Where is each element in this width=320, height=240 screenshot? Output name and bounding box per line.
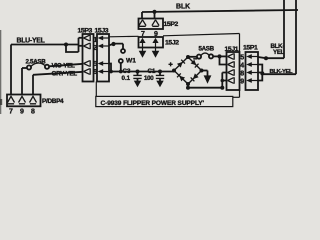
svg-text:0.1: 0.1 bbox=[122, 75, 131, 82]
pin symbol 3 bbox=[30, 96, 37, 104]
node on pin5 wire bbox=[264, 56, 268, 60]
capacitor C1 ground arrow bbox=[159, 78, 161, 81]
connector 15P3 box bbox=[83, 34, 94, 82]
svg-text:15P3: 15P3 bbox=[78, 28, 93, 35]
fuse F2 5A SB wire from bridge top bbox=[188, 56, 197, 58]
diode top-left edge bbox=[177, 60, 185, 68]
15J3 pin 2 plug bbox=[103, 45, 109, 47]
svg-text:7: 7 bbox=[141, 31, 145, 38]
scan edge artifact left bbox=[0, 30, 2, 114]
15P2 pin 7 socket bbox=[139, 20, 146, 27]
svg-text:2.5ASB: 2.5ASB bbox=[26, 58, 47, 65]
enclosure right edge lower bbox=[239, 90, 241, 97]
wire BLK-YEL lower to right edge bbox=[262, 73, 296, 75]
wire BLK junction drop bbox=[154, 12, 156, 19]
wire stub to pin 1 bbox=[79, 37, 84, 39]
15P3 pin 1 socket bbox=[84, 35, 91, 41]
node on pin2 wire bbox=[111, 42, 115, 46]
svg-text:4: 4 bbox=[240, 62, 244, 69]
15J2 pin 7 plug bbox=[139, 38, 145, 43]
node bridge bottom corner bbox=[186, 82, 190, 86]
wire feed to pin 4 bbox=[220, 56, 228, 64]
node bridge right corner bbox=[200, 69, 204, 73]
svg-text:15J1: 15J1 bbox=[225, 46, 239, 53]
wire bridge right corner bbox=[202, 70, 208, 72]
15P3 pin 2 socket bbox=[84, 43, 91, 49]
capacitor C3 plates bbox=[133, 75, 141, 78]
svg-text:15P2: 15P2 bbox=[164, 21, 179, 28]
node bridge left corner bbox=[172, 69, 176, 73]
connector 15J1 box bbox=[227, 52, 240, 90]
node pin 9 branch bbox=[221, 79, 225, 83]
wire stub to pin 2 bbox=[79, 45, 84, 47]
wire BLK top rail bbox=[142, 10, 298, 12]
15J1 pin 9 socket bbox=[228, 77, 235, 83]
bridge rectifier diamond bbox=[174, 57, 202, 84]
15P1 pin 9 plug bbox=[252, 80, 259, 82]
svg-text:YEL: YEL bbox=[273, 49, 285, 56]
enclosure left edge lower bbox=[95, 82, 97, 97]
capacitor C1 plates bbox=[156, 75, 164, 78]
wire GRY-YEL to pin 6 bbox=[33, 72, 83, 75]
enclosure right edge upper bbox=[239, 34, 241, 53]
svg-text:7: 7 bbox=[9, 109, 13, 115]
15P3 pin 6 socket bbox=[84, 68, 91, 74]
node bridge top corner bbox=[186, 55, 190, 59]
15J1 pin 8 socket bbox=[228, 69, 235, 75]
wire GRY-YEL drop to P/DBP4 bbox=[32, 75, 34, 95]
svg-text:BLK-YEL: BLK-YEL bbox=[270, 69, 294, 75]
node BLK junction bbox=[152, 10, 156, 14]
enclosure top edge right segment bbox=[163, 34, 240, 36]
15P1 pin 4 plug bbox=[252, 64, 259, 66]
wire BLK left drop bbox=[141, 12, 143, 19]
svg-text:C3: C3 bbox=[123, 68, 131, 75]
svg-text:5: 5 bbox=[240, 54, 244, 61]
15J3 pin 5 plug bbox=[103, 63, 109, 65]
node C3 on bus bbox=[136, 70, 140, 74]
15J2 pin 7 exit arrow bbox=[139, 51, 147, 58]
15P2 pin 9 socket bbox=[152, 20, 159, 27]
capacitor C1 lead bbox=[159, 72, 161, 76]
svg-text:W1: W1 bbox=[126, 57, 136, 64]
svg-text:8: 8 bbox=[240, 70, 244, 77]
jumper W1 terminal lower bbox=[119, 59, 123, 63]
svg-text:6: 6 bbox=[93, 69, 97, 76]
svg-text:9: 9 bbox=[154, 31, 158, 38]
label box C-9939 bbox=[96, 96, 233, 106]
connector P/DBP4 box bbox=[7, 95, 41, 107]
diode top-right edge bbox=[191, 60, 199, 68]
svg-text:8: 8 bbox=[31, 109, 35, 115]
node W1 joins bus bbox=[119, 70, 123, 74]
svg-text:100: 100 bbox=[144, 75, 154, 82]
svg-text:1: 1 bbox=[93, 37, 97, 44]
wire VIO-YEL to pin 5 bbox=[49, 64, 83, 67]
svg-text:GRY-YEL: GRY-YEL bbox=[52, 70, 78, 77]
svg-text:5: 5 bbox=[93, 61, 97, 68]
enclosure top edge left segment bbox=[109, 35, 139, 38]
wire bus from pin 6 to bridge bbox=[109, 71, 174, 73]
15P1 pin 5 plug bbox=[252, 56, 259, 58]
node pins 4-8-9 join bbox=[260, 71, 264, 75]
connector 15J3 box bbox=[97, 34, 109, 82]
wire bridge bottom rail bbox=[188, 84, 222, 88]
15P1 pin 8 plug bbox=[252, 72, 259, 74]
capacitor C3 ground arrow bbox=[137, 78, 139, 81]
node rail left bbox=[186, 86, 190, 90]
wire rail up to pins 8,9 bbox=[222, 73, 227, 88]
jumper W1 terminal upper bbox=[121, 49, 125, 53]
15J2 pin 9 plug bbox=[152, 38, 158, 43]
wire branch loop below junction bbox=[66, 45, 79, 53]
15J2 pin 9 exit arrow bbox=[152, 51, 160, 58]
svg-text:15J3: 15J3 bbox=[95, 28, 109, 35]
wire vertical right A bbox=[283, 0, 285, 58]
wire pin 8 bbox=[258, 72, 262, 74]
svg-text:P/DBP4: P/DBP4 bbox=[42, 98, 64, 105]
node junction on BLU-YEL bbox=[64, 43, 68, 47]
connector 15P1 box bbox=[246, 52, 259, 90]
svg-text:2: 2 bbox=[93, 45, 97, 52]
arrow output down bbox=[207, 71, 209, 77]
svg-text:BLU-YEL: BLU-YEL bbox=[17, 37, 45, 44]
svg-text:VIO-YEL: VIO-YEL bbox=[52, 62, 76, 69]
diode bottom-right edge bbox=[191, 73, 199, 81]
wire pin 5 bend to bus bbox=[109, 64, 111, 72]
15P3 pin 5 socket bbox=[84, 60, 91, 66]
15J1 pin 4 socket bbox=[228, 61, 235, 67]
15J1 pin 5 socket bbox=[228, 53, 235, 59]
15J3 pin 6 plug bbox=[103, 71, 109, 73]
diode bottom-left edge bbox=[177, 73, 185, 81]
wire pin 5 BLK-YEL to top rail bbox=[258, 57, 284, 58]
connector 15P2 box bbox=[139, 19, 164, 30]
node C1 on bus bbox=[158, 70, 162, 74]
connector 15J2 box bbox=[139, 37, 164, 48]
wire fork bar feeding pins 1,2 bbox=[78, 38, 80, 52]
svg-text:BLK: BLK bbox=[176, 3, 190, 10]
wire pin 4 bend down bbox=[258, 65, 262, 74]
wire vertical right B bbox=[295, 0, 297, 74]
svg-text:9: 9 bbox=[20, 109, 24, 115]
pin symbol 2 bbox=[19, 96, 26, 104]
svg-text:C-9939 FLIPPER POWER SUPPLY': C-9939 FLIPPER POWER SUPPLY' bbox=[101, 100, 205, 107]
node pin5 joins bus bbox=[109, 70, 113, 74]
label polarity + bbox=[169, 62, 173, 66]
enclosure bottom notch bbox=[233, 96, 240, 98]
wire fuse drop to P/DBP4 bbox=[21, 68, 23, 95]
wire BLU-YEL left drop to P/DBP4 bbox=[10, 45, 12, 95]
svg-text:5ASB: 5ASB bbox=[199, 45, 215, 52]
15J3 pin 1 plug bbox=[103, 37, 109, 39]
fuse F1 2.5A SB bbox=[22, 67, 27, 69]
svg-text:15P1: 15P1 bbox=[243, 45, 258, 52]
svg-text:9: 9 bbox=[240, 78, 244, 85]
node fuse junction bbox=[218, 54, 222, 58]
wire pin 9 bend up bbox=[258, 74, 262, 81]
wire W1 lower to bus bbox=[120, 63, 122, 72]
svg-text:15J2: 15J2 bbox=[165, 40, 179, 47]
pin symbol 1 bbox=[8, 96, 15, 104]
capacitor C3 lead bbox=[137, 72, 139, 76]
wire fuse to pin 5 bbox=[213, 55, 227, 57]
wire pin 2 to W1 bbox=[109, 44, 123, 49]
svg-text:C1: C1 bbox=[148, 68, 156, 75]
label polarity minus bbox=[193, 58, 197, 60]
wire BLU-YEL horizontal bbox=[11, 44, 79, 46]
node rail right bbox=[220, 86, 224, 90]
